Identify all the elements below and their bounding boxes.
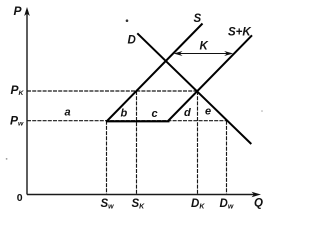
thick world-price supply segment on P_w [106, 120, 170, 122]
K arrow (double-headed) [174, 51, 234, 56]
svg-text:SK: SK [132, 198, 146, 211]
svg-text:c: c [152, 108, 158, 120]
svg-text:e: e [205, 106, 211, 118]
P axis (vertical) [24, 7, 30, 195]
svg-text:d: d [184, 107, 191, 119]
speck right [261, 110, 263, 112]
quantity line S_w [106, 121, 108, 194]
svg-text:P: P [14, 4, 23, 18]
quantity line D_K [197, 91, 199, 194]
svg-text:K: K [200, 41, 209, 53]
Q axis (horizontal) [27, 192, 261, 197]
svg-text:D: D [128, 35, 136, 47]
svg-text:0: 0 [17, 192, 23, 204]
svg-text:DK: DK [191, 198, 205, 211]
svg-text:Pw: Pw [10, 114, 24, 128]
price line P_W [27, 120, 227, 122]
quantity line S_K [136, 91, 138, 194]
svg-text:S+K: S+K [228, 27, 251, 39]
svg-text:b: b [121, 108, 128, 120]
svg-text:a: a [65, 107, 71, 119]
supply-plus-tariff curve S+K [168, 35, 252, 121]
svg-text:S: S [194, 13, 202, 25]
svg-text:Dw: Dw [220, 198, 234, 211]
supply curve S [107, 24, 203, 122]
svg-text:PK: PK [11, 83, 25, 97]
price line P_K [27, 90, 198, 92]
speck left [6, 158, 8, 160]
demand curve D [137, 33, 251, 144]
svg-text:Sw: Sw [101, 198, 115, 211]
svg-text:Q: Q [254, 198, 263, 210]
stray ink dot [126, 19, 129, 22]
quantity line D_w [226, 121, 228, 194]
